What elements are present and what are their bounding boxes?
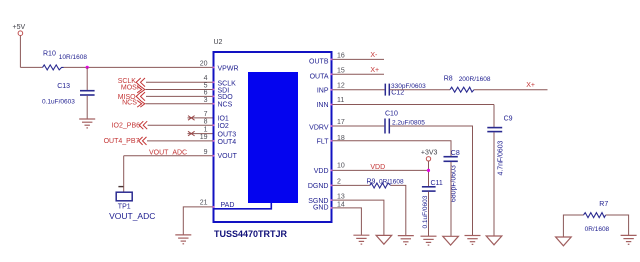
ground R7 right: [621, 235, 637, 244]
svg-text:R9: R9: [367, 178, 376, 185]
svg-text:SDO: SDO: [218, 94, 234, 101]
ground pin13 triangle: [376, 235, 392, 244]
wire C8 to ground: [450, 162, 452, 236]
svg-text:+3V3: +3V3: [421, 150, 438, 157]
svg-text:4: 4: [204, 75, 208, 82]
svg-text:0.1uF/0603: 0.1uF/0603: [422, 195, 429, 228]
svg-text:GND: GND: [313, 205, 329, 212]
svg-text:0R/1608: 0R/1608: [379, 179, 404, 186]
wire pin18 to C8: [333, 141, 452, 156]
svg-text:DGND: DGND: [308, 183, 329, 190]
resistor R9: [367, 178, 404, 188]
svg-text:11: 11: [337, 97, 344, 104]
wire C11 to ground: [428, 192, 430, 236]
wire +3V3 down: [428, 161, 430, 186]
svg-text:NCS: NCS: [218, 102, 233, 109]
svg-text:10R/1608: 10R/1608: [59, 54, 88, 61]
svg-text:NCS: NCS: [122, 99, 137, 106]
svg-text:C10: C10: [385, 111, 398, 118]
wire pin11 to C9: [333, 104, 495, 106]
svg-text:C8: C8: [451, 150, 460, 157]
resistor R8: [444, 75, 491, 92]
pin1 stub: [188, 133, 214, 135]
wire R7 left to ground: [563, 215, 583, 237]
ground C9 triangle: [486, 236, 502, 245]
svg-text:12: 12: [337, 83, 345, 90]
svg-text:INP: INP: [317, 87, 329, 94]
svg-text:OUTB: OUTB: [309, 59, 329, 66]
svg-text:X+: X+: [526, 82, 535, 89]
capacitor C9: [487, 116, 512, 176]
svg-text:OUT3: OUT3: [218, 131, 237, 138]
svg-text:VDD: VDD: [314, 168, 329, 175]
chevron MOSI: [137, 86, 145, 93]
svg-text:INN: INN: [316, 102, 328, 109]
power +3V3: [421, 150, 438, 161]
wire pin9 to TP1: [124, 155, 213, 157]
svg-text:10: 10: [337, 162, 345, 169]
svg-text:IO2: IO2: [218, 123, 229, 130]
ground R9: [398, 236, 414, 245]
node junction C13: [86, 66, 89, 69]
ground under C13: [79, 119, 95, 128]
wire pin2 to R9: [333, 184, 370, 186]
pin7 stub: [188, 117, 214, 119]
svg-text:VOUT_ADC: VOUT_ADC: [109, 211, 155, 221]
svg-text:IO2_PB6: IO2_PB6: [112, 123, 141, 130]
testpoint TP1: [109, 187, 155, 221]
capacitor C10: [385, 111, 425, 134]
svg-text:9: 9: [204, 149, 208, 156]
svg-text:6: 6: [204, 90, 208, 97]
wire R7 right to ground: [606, 215, 629, 235]
wire OUT4_PB7 to pin19: [147, 140, 213, 142]
wire SCLK to pin4: [146, 81, 213, 83]
ground C8 triangle: [443, 236, 459, 245]
pad separator: [215, 203, 272, 209]
svg-text:0R/1608: 0R/1608: [585, 226, 610, 233]
wire C13 to ground: [86, 96, 88, 119]
power +5V: [13, 24, 26, 36]
svg-text:IO1: IO1: [218, 116, 229, 123]
svg-text:OUTA: OUTA: [310, 73, 329, 80]
capacitor C8: [444, 150, 460, 202]
svg-text:17: 17: [337, 119, 345, 126]
svg-text:15: 15: [337, 67, 345, 74]
resistor R10: [43, 51, 88, 70]
wire MISO to pin6: [146, 95, 213, 97]
svg-text:1: 1: [204, 127, 208, 134]
chevron NCS: [137, 101, 145, 108]
chevron IO2_PB6: [139, 121, 147, 129]
svg-text:C12: C12: [391, 90, 404, 97]
no-connect X pin1: [188, 131, 195, 136]
svg-text:C9: C9: [504, 116, 513, 123]
capacitor C12: [385, 83, 426, 97]
pin connection dots: [213, 58, 333, 209]
wire pin10 to junction: [333, 169, 429, 171]
svg-text:19: 19: [200, 134, 208, 141]
svg-text:PAD: PAD: [221, 202, 235, 209]
ground pin14: [353, 235, 369, 244]
svg-text:7: 7: [204, 111, 208, 118]
capacitor C13: [42, 83, 95, 105]
svg-text:R8: R8: [444, 75, 453, 82]
wire MOSI to pin5: [146, 89, 214, 91]
wire NCS to pin3: [146, 103, 214, 105]
wire C12 to R8: [390, 89, 450, 91]
IC U2 body fill: [248, 72, 298, 203]
wire pin15 X+: [333, 73, 385, 75]
svg-text:C13: C13: [57, 83, 70, 90]
svg-text:20: 20: [200, 60, 208, 67]
svg-text:VDRV: VDRV: [309, 124, 329, 131]
ground C10: [465, 236, 481, 245]
wire R9 to ground: [391, 185, 406, 235]
resistor R7: [584, 201, 610, 233]
wire pin21 to ground: [183, 207, 213, 235]
svg-text:0.1uF/0603: 0.1uF/0603: [42, 98, 75, 105]
wire pin12 to C12: [333, 89, 385, 91]
ground pin21: [175, 235, 191, 244]
svg-text:R7: R7: [599, 201, 608, 208]
svg-text:OUT4_PB7: OUT4_PB7: [104, 138, 140, 145]
right pin names: [308, 59, 329, 212]
capacitor C11: [422, 180, 443, 229]
wire pin17 to C10: [333, 125, 385, 127]
IC U2 outline: [214, 39, 332, 222]
wire R8 to X+: [474, 89, 548, 91]
left pin numbers: [200, 60, 208, 206]
wire pin16 X-: [333, 58, 385, 60]
wire +5V down: [19, 36, 21, 68]
chevron OUT4_PB7: [139, 137, 147, 145]
svg-text:R10: R10: [43, 51, 56, 58]
ground C11: [421, 236, 437, 245]
svg-text:16: 16: [337, 53, 345, 60]
svg-text:U2: U2: [214, 39, 223, 46]
wire pin13 to ground: [333, 200, 384, 235]
wire R10 to pin20: [64, 66, 214, 68]
svg-text:OUT4: OUT4: [218, 139, 237, 146]
svg-text:X+: X+: [370, 67, 379, 74]
left pin names: [218, 65, 239, 209]
wire pin14 to ground: [333, 208, 362, 235]
svg-text:200R/1608: 200R/1608: [459, 76, 491, 83]
svg-text:21: 21: [200, 200, 208, 207]
wire +5V to R10: [20, 66, 42, 68]
svg-text:MOSI: MOSI: [121, 84, 139, 91]
wire C9 to ground: [493, 132, 495, 236]
svg-text:FLT: FLT: [317, 139, 330, 146]
svg-text:VOUT: VOUT: [218, 153, 238, 160]
svg-text:X-: X-: [370, 52, 378, 59]
svg-text:5: 5: [204, 82, 208, 89]
svg-text:TP1: TP1: [118, 203, 131, 210]
svg-text:VPWR: VPWR: [218, 65, 239, 72]
svg-text:8: 8: [204, 118, 208, 125]
svg-text:C11: C11: [431, 180, 443, 187]
ground R7 left triangle: [556, 237, 572, 246]
right pin numbers: [337, 53, 345, 209]
no-connect X pin7: [188, 116, 195, 121]
wire C10 right then down to ground: [390, 126, 473, 236]
svg-text:TUSS4470TRTJR: TUSS4470TRTJR: [214, 229, 288, 239]
svg-text:4.7nF/0603: 4.7nF/0603: [498, 140, 505, 175]
svg-text:2: 2: [337, 178, 341, 185]
node junction VDD: [427, 169, 430, 172]
svg-text:3: 3: [204, 97, 208, 104]
chevron MISO: [136, 92, 145, 101]
svg-text:+5V: +5V: [13, 24, 26, 31]
chevron SCLK: [136, 78, 145, 87]
wire IO2_PB6 to pin8: [148, 124, 213, 126]
svg-text:680pF/0603: 680pF/0603: [451, 165, 458, 202]
svg-text:SCLK: SCLK: [218, 80, 237, 87]
wire junction down to C13: [86, 67, 88, 90]
